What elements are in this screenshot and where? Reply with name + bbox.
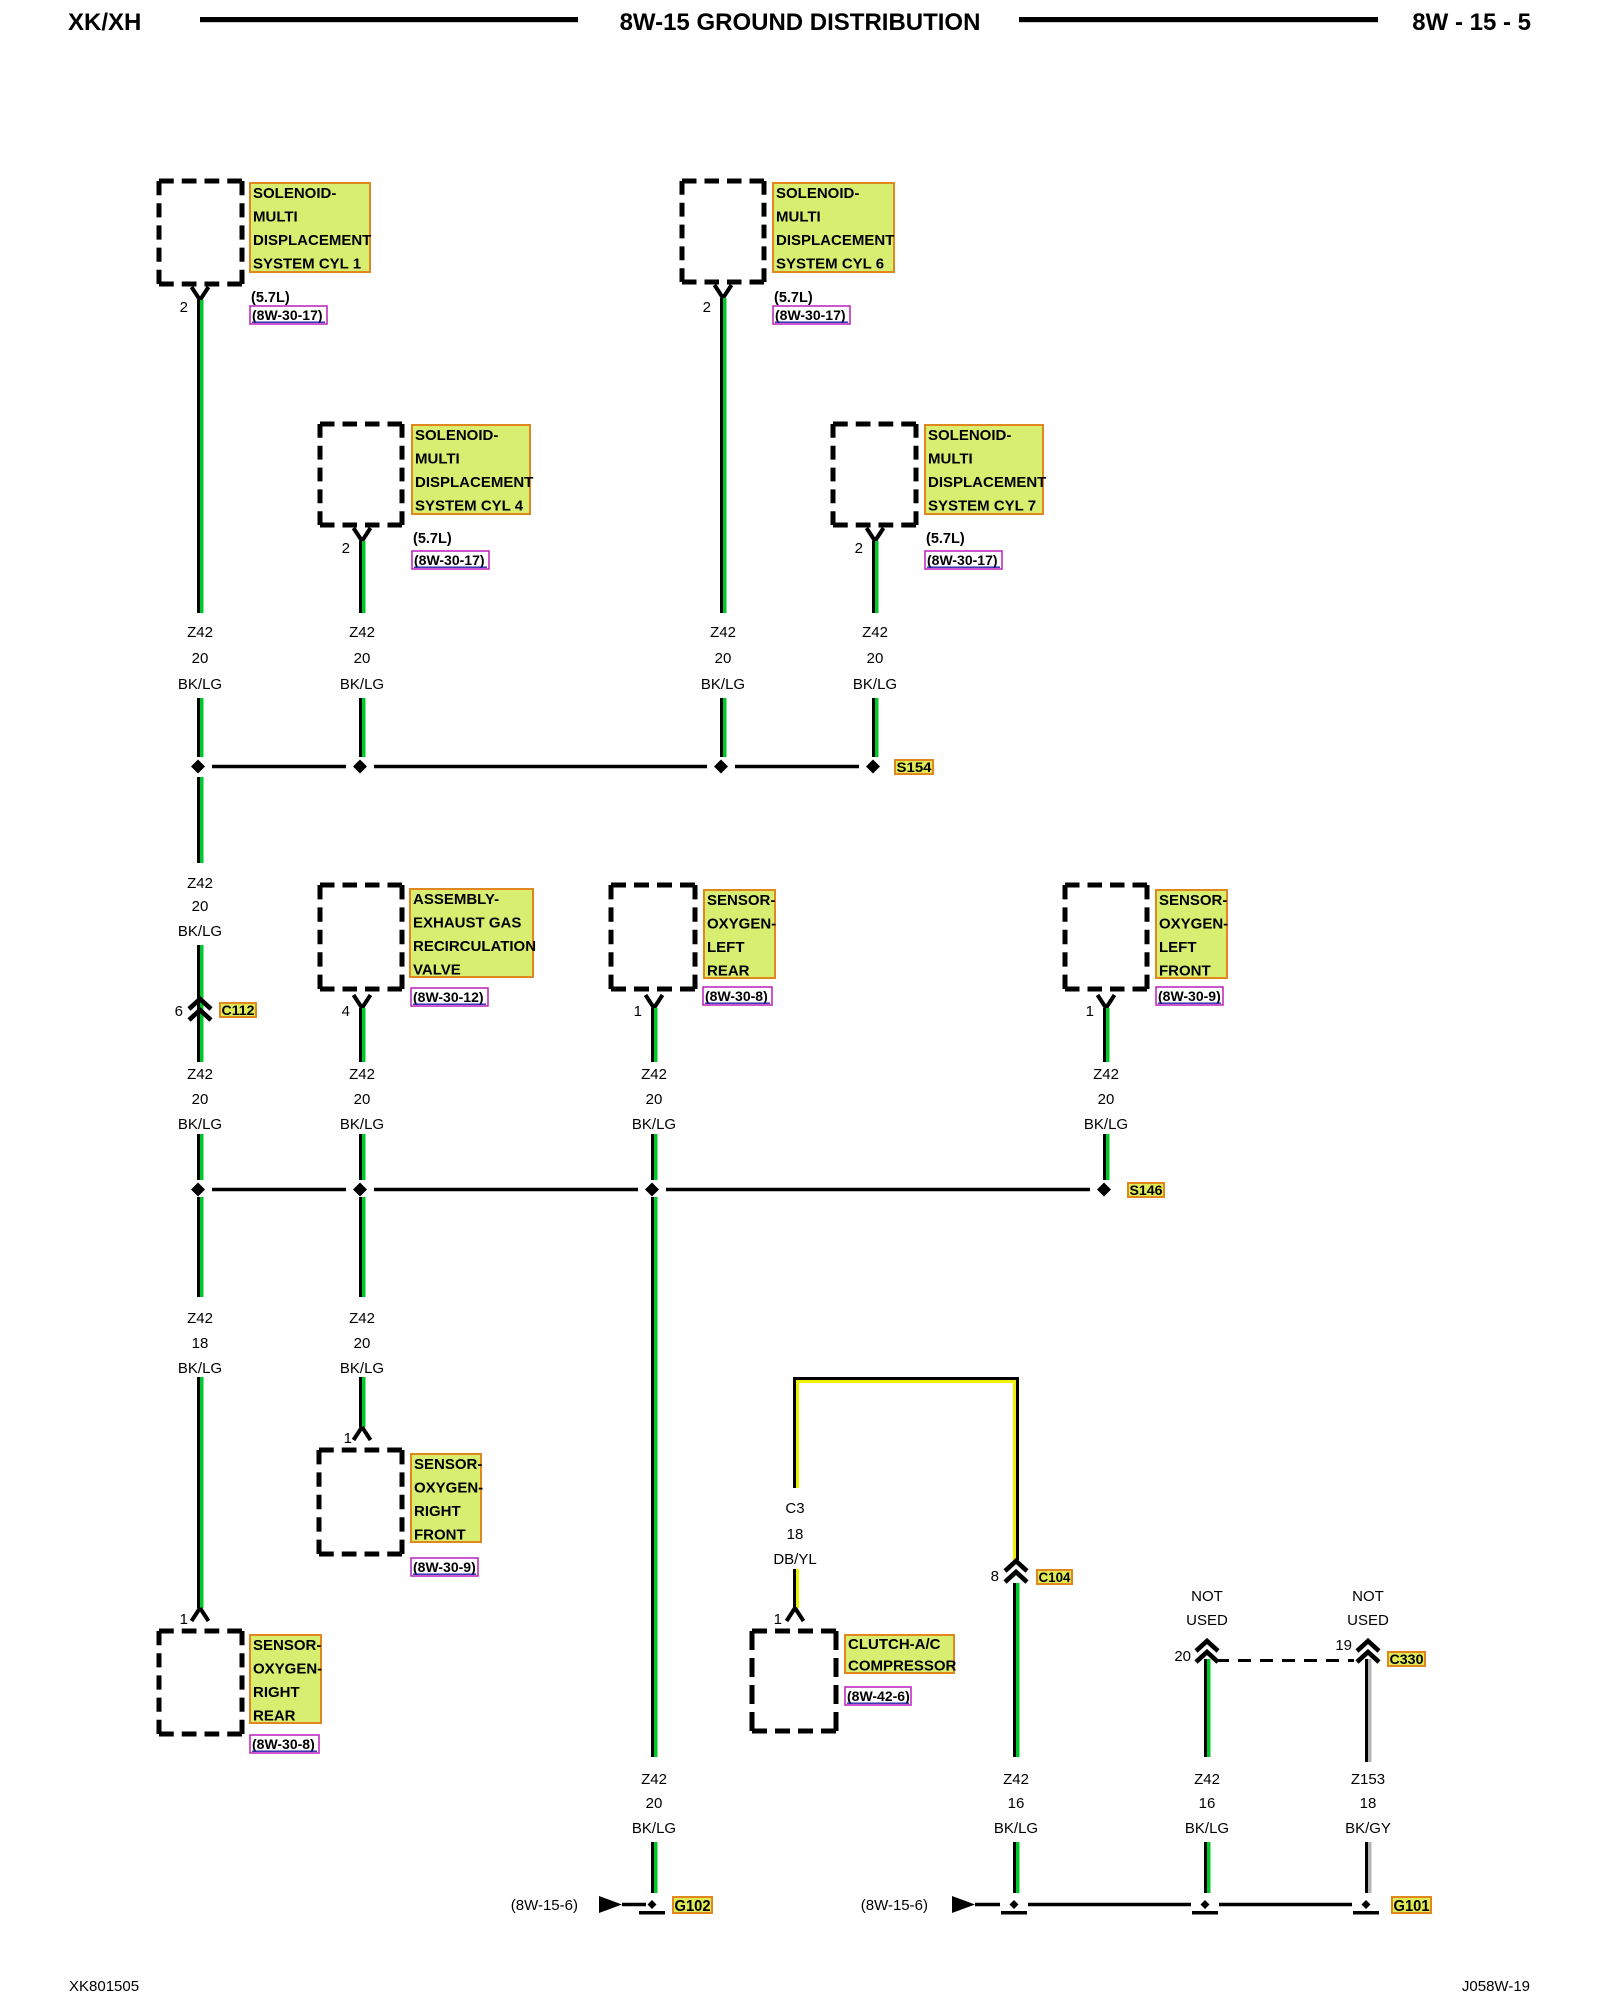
ground label G102 bbox=[673, 1897, 712, 1915]
wire Z42 20 BK/LG from cyl7 upper segment bbox=[872, 541, 879, 613]
svg-text:Z42: Z42 bbox=[641, 1066, 667, 1083]
label SENSOR-OXYGEN-LEFT REAR bbox=[704, 890, 776, 980]
svg-text:BK/LG: BK/LG bbox=[178, 923, 222, 940]
svg-text:SOLENOID-: SOLENOID- bbox=[415, 427, 498, 444]
in-line connector C112 symbol bbox=[189, 999, 211, 1020]
clutch-A/C compressor connector box bbox=[752, 1631, 836, 1731]
wire C3 18 DB/YL right vertical into C104 bbox=[1013, 1377, 1019, 1560]
svg-text:20: 20 bbox=[1174, 1648, 1191, 1665]
ground junction G101 a bbox=[1010, 1900, 1019, 1909]
reference link 8W-30-8 for right rear oxygen sensor bbox=[250, 1735, 319, 1753]
connector Y at A/C compressor clutch bbox=[787, 1608, 804, 1621]
svg-text:20: 20 bbox=[715, 650, 732, 667]
dashed tie line between C330 pins bbox=[1216, 1659, 1354, 1662]
svg-text:6: 6 bbox=[175, 1003, 183, 1020]
svg-text:20: 20 bbox=[192, 898, 209, 915]
junction at cyl6 wire on S154 bbox=[714, 760, 728, 774]
svg-text:BK/LG: BK/LG bbox=[632, 1820, 676, 1837]
svg-text:S154: S154 bbox=[897, 759, 932, 775]
svg-text:(5.7L): (5.7L) bbox=[926, 531, 965, 547]
label SENSOR-OXYGEN-LEFT FRONT bbox=[1156, 890, 1228, 980]
svg-text:(8W-30-9): (8W-30-9) bbox=[1158, 988, 1221, 1004]
connector label C112 bbox=[220, 1002, 256, 1018]
svg-text:(8W-30-8): (8W-30-8) bbox=[705, 988, 768, 1004]
svg-text:BK/GY: BK/GY bbox=[1345, 1820, 1391, 1837]
svg-text:C330: C330 bbox=[1390, 1651, 1424, 1667]
svg-text:18: 18 bbox=[192, 1335, 209, 1352]
wire Z153 18 BK/GY from C330 pin 19 bbox=[1365, 1659, 1372, 1762]
wire Z42 20 BK/LG from left rear oxygen sensor bbox=[651, 1008, 658, 1062]
svg-text:8W - 15 - 5: 8W - 15 - 5 bbox=[1412, 9, 1531, 36]
svg-text:SOLENOID-: SOLENOID- bbox=[776, 185, 859, 202]
connector Y at left rear oxygen sensor bbox=[646, 995, 663, 1008]
wire Z42 20 BK/LG left rear sensor into S146 bbox=[651, 1134, 658, 1180]
wire Z42 20 BK/LG from cyl6 lower segment to S154 bbox=[720, 698, 727, 757]
wire Z42 16 BK/LG from C330 pin 20 bbox=[1204, 1659, 1211, 1757]
svg-text:LEFT: LEFT bbox=[1159, 939, 1197, 956]
wire Z42 20 BK/LG from cyl7 lower segment to S154 bbox=[872, 698, 879, 757]
svg-text:RIGHT: RIGHT bbox=[414, 1503, 461, 1520]
svg-text:BK/LG: BK/LG bbox=[994, 1820, 1038, 1837]
splice S154 bus segment 2 bbox=[374, 765, 707, 769]
splice label S146 bbox=[1128, 1182, 1164, 1198]
ground bar G101 c bbox=[1353, 1911, 1379, 1915]
label ASSEMBLY-EXHAUST GAS RECIRCULATION VALVE bbox=[410, 889, 536, 979]
svg-text:OXYGEN-: OXYGEN- bbox=[414, 1480, 483, 1497]
label SOLENOID-MULTI DISPLACEMENT SYSTEM CYL 1 bbox=[250, 183, 371, 273]
svg-text:C3: C3 bbox=[785, 1500, 804, 1517]
ground label G101 bbox=[1392, 1897, 1431, 1915]
svg-text:BK/LG: BK/LG bbox=[701, 676, 745, 693]
svg-text:VALVE: VALVE bbox=[413, 962, 461, 979]
svg-text:(8W-30-17): (8W-30-17) bbox=[775, 307, 846, 323]
svg-text:2: 2 bbox=[180, 299, 188, 316]
junction at cyl7 wire on S154 bbox=[866, 760, 880, 774]
svg-text:SYSTEM CYL 6: SYSTEM CYL 6 bbox=[776, 256, 884, 273]
svg-text:(8W-30-12): (8W-30-12) bbox=[413, 989, 484, 1005]
reference link 8W-30-17 for cyl 1 bbox=[250, 306, 327, 324]
svg-text:BK/LG: BK/LG bbox=[340, 676, 384, 693]
reference link 8W-42-6 for A/C compressor clutch bbox=[845, 1687, 911, 1705]
reference link 8W-30-9 for left front oxygen sensor bbox=[1156, 987, 1223, 1005]
off-page triangle at G102 bbox=[599, 1896, 622, 1913]
header rule left bbox=[200, 17, 578, 22]
wire Z42 16 BK/LG into ground G101 first bbox=[1013, 1842, 1020, 1893]
sensor-oxygen-left front connector box bbox=[1065, 885, 1147, 989]
svg-text:SYSTEM CYL 1: SYSTEM CYL 1 bbox=[253, 256, 361, 273]
svg-text:BK/LG: BK/LG bbox=[178, 1360, 222, 1377]
svg-text:1: 1 bbox=[180, 1611, 188, 1628]
svg-text:BK/LG: BK/LG bbox=[178, 1116, 222, 1133]
svg-text:20: 20 bbox=[867, 650, 884, 667]
svg-text:18: 18 bbox=[787, 1526, 804, 1543]
svg-text:Z42: Z42 bbox=[349, 624, 375, 641]
ground junction G101 b bbox=[1201, 1900, 1210, 1909]
connector label C104 bbox=[1037, 1569, 1072, 1585]
svg-text:MULTI: MULTI bbox=[776, 209, 821, 226]
sensor-oxygen-right front connector box bbox=[319, 1450, 402, 1554]
svg-text:20: 20 bbox=[646, 1091, 663, 1108]
svg-text:SOLENOID-: SOLENOID- bbox=[253, 185, 336, 202]
wire Z42 20 BK/LG from cyl4 lower segment to S154 bbox=[359, 698, 366, 757]
svg-text:Z153: Z153 bbox=[1351, 1771, 1385, 1788]
svg-text:20: 20 bbox=[354, 650, 371, 667]
ground G101 bus segment 2 bbox=[1028, 1903, 1191, 1907]
off-page triangle at G101 bbox=[952, 1896, 975, 1913]
junction left front sensor wire on S146 bbox=[1097, 1183, 1111, 1197]
reference link 8W-30-12 for EGR valve bbox=[411, 988, 488, 1006]
svg-text:RECIRCULATION: RECIRCULATION bbox=[413, 938, 536, 955]
svg-text:20: 20 bbox=[1098, 1091, 1115, 1108]
connector Y at cyl 1 solenoid bbox=[192, 287, 209, 300]
solenoid-multi displacement system cyl 1 connector box bbox=[159, 181, 242, 284]
wire Z42 16 BK/LG below C104 bbox=[1013, 1583, 1020, 1757]
svg-text:G101: G101 bbox=[1394, 1898, 1430, 1915]
wire Z42 20 BK/LG from EGR into S146 bbox=[359, 1134, 366, 1180]
wire C3 18 DB/YL left vertical lower segment bbox=[793, 1569, 799, 1608]
svg-text:20: 20 bbox=[646, 1795, 663, 1812]
svg-text:1: 1 bbox=[1086, 1003, 1094, 1020]
reference link 8W-30-17 for cyl 7 bbox=[925, 551, 1002, 569]
svg-text:(8W-30-17): (8W-30-17) bbox=[927, 552, 998, 568]
solenoid-multi displacement system cyl 4 connector box bbox=[320, 424, 402, 525]
svg-text:S146: S146 bbox=[1130, 1182, 1163, 1198]
svg-text:BK/LG: BK/LG bbox=[853, 676, 897, 693]
connector Y at cyl 7 solenoid bbox=[867, 528, 884, 541]
svg-text:BK/LG: BK/LG bbox=[178, 676, 222, 693]
svg-text:Z42: Z42 bbox=[349, 1066, 375, 1083]
wire C3 18 DB/YL horizontal top segment bbox=[793, 1377, 1019, 1383]
assembly-exhaust gas recirculation valve connector box bbox=[320, 885, 402, 989]
wire Z42 20 BK/LG into C112 bbox=[197, 945, 204, 1062]
wire Z42 16 BK/LG into ground G101 second bbox=[1204, 1842, 1211, 1893]
svg-text:(8W-30-9): (8W-30-9) bbox=[413, 1559, 476, 1575]
junction EGR wire on S146 bbox=[353, 1183, 367, 1197]
svg-text:18: 18 bbox=[1360, 1795, 1377, 1812]
svg-text:OXYGEN-: OXYGEN- bbox=[253, 1661, 322, 1678]
svg-text:NOT: NOT bbox=[1191, 1588, 1223, 1605]
svg-text:8: 8 bbox=[991, 1568, 999, 1585]
svg-text:FRONT: FRONT bbox=[414, 1527, 466, 1544]
reference link 8W-30-9 for right front oxygen sensor bbox=[411, 1558, 478, 1576]
svg-text:2: 2 bbox=[855, 540, 863, 557]
svg-text:(5.7L): (5.7L) bbox=[251, 290, 290, 306]
reference link 8W-30-17 for cyl 4 bbox=[412, 551, 489, 569]
svg-text:Z42: Z42 bbox=[187, 624, 213, 641]
svg-text:20: 20 bbox=[192, 1091, 209, 1108]
svg-text:19: 19 bbox=[1335, 1637, 1352, 1654]
ground bar G101 a bbox=[1001, 1911, 1027, 1915]
wire Z42 20 BK/LG from cyl4 upper segment bbox=[359, 541, 366, 613]
svg-text:1: 1 bbox=[774, 1611, 782, 1628]
splice S146 bus segment 2 bbox=[374, 1188, 638, 1192]
svg-text:Z42: Z42 bbox=[641, 1771, 667, 1788]
reference link 8W-30-17 for cyl 6 bbox=[773, 306, 850, 324]
svg-text:Z42: Z42 bbox=[1194, 1771, 1220, 1788]
svg-text:BK/LG: BK/LG bbox=[340, 1360, 384, 1377]
sensor-oxygen-left rear connector box bbox=[611, 885, 695, 989]
ground junction G102 bbox=[648, 1900, 657, 1909]
wire Z42 20 BK/LG into ground G102 bbox=[651, 1842, 658, 1893]
ground G102 bus segment bbox=[622, 1903, 646, 1907]
splice S146 bus segment 3 bbox=[666, 1188, 1090, 1192]
svg-text:SYSTEM CYL 7: SYSTEM CYL 7 bbox=[928, 498, 1036, 515]
wire Z42 20 BK/LG from left front oxygen sensor bbox=[1103, 1008, 1110, 1062]
ground G101 bus segment 1 bbox=[975, 1903, 1000, 1907]
wire Z42 20 BK/LG from EGR upper segment bbox=[359, 1008, 366, 1062]
svg-text:C112: C112 bbox=[222, 1002, 255, 1018]
svg-text:DISPLACEMENT: DISPLACEMENT bbox=[776, 232, 894, 249]
svg-text:OXYGEN-: OXYGEN- bbox=[1159, 916, 1228, 933]
wire Z42 18 BK/LG col1 to right rear oxygen sensor bbox=[197, 1377, 204, 1608]
svg-text:G102: G102 bbox=[675, 1898, 711, 1915]
svg-text:20: 20 bbox=[192, 650, 209, 667]
in-line connector C104 symbol bbox=[1005, 1561, 1027, 1582]
connector C330 pin 20 symbol bbox=[1196, 1641, 1218, 1662]
svg-text:FRONT: FRONT bbox=[1159, 963, 1211, 980]
svg-text:Z42: Z42 bbox=[349, 1310, 375, 1327]
wire Z42 20 BK/LG below S154 segment a bbox=[197, 777, 204, 863]
svg-text:BK/LG: BK/LG bbox=[1084, 1116, 1128, 1133]
svg-text:BK/LG: BK/LG bbox=[340, 1116, 384, 1133]
svg-text:DISPLACEMENT: DISPLACEMENT bbox=[415, 474, 533, 491]
svg-text:SYSTEM CYL 4: SYSTEM CYL 4 bbox=[415, 498, 524, 515]
label CLUTCH-A/C COMPRESSOR bbox=[845, 1635, 957, 1675]
ground junction G101 c bbox=[1362, 1900, 1371, 1909]
sensor-oxygen-right rear connector box bbox=[159, 1631, 242, 1734]
wire Z42 20 BK/LG from cyl1 lower segment to S154 bbox=[197, 698, 204, 757]
svg-text:Z42: Z42 bbox=[187, 875, 213, 892]
label SOLENOID-MULTI DISPLACEMENT SYSTEM CYL 4 bbox=[412, 425, 533, 515]
svg-text:20: 20 bbox=[354, 1335, 371, 1352]
svg-text:SENSOR-: SENSOR- bbox=[707, 892, 775, 909]
svg-text:RIGHT: RIGHT bbox=[253, 1684, 300, 1701]
wire Z42 20 BK/LG from cyl6 upper segment bbox=[720, 298, 727, 613]
label SENSOR-OXYGEN-RIGHT REAR bbox=[250, 1635, 322, 1725]
solenoid-multi displacement system cyl 6 connector box bbox=[682, 181, 764, 282]
solenoid-multi displacement system cyl 7 connector box bbox=[833, 424, 916, 525]
svg-text:Z42: Z42 bbox=[1093, 1066, 1119, 1083]
svg-text:EXHAUST GAS: EXHAUST GAS bbox=[413, 915, 521, 932]
svg-text:USED: USED bbox=[1186, 1612, 1228, 1629]
reference link 8W-30-8 for left rear oxygen sensor bbox=[703, 987, 772, 1005]
wire Z42 18 BK/LG col1 below S146 upper bbox=[197, 1197, 204, 1297]
svg-text:(8W-30-17): (8W-30-17) bbox=[252, 307, 323, 323]
svg-text:2: 2 bbox=[703, 299, 711, 316]
svg-text:USED: USED bbox=[1347, 1612, 1389, 1629]
header rule right bbox=[1019, 17, 1378, 22]
svg-text:(5.7L): (5.7L) bbox=[774, 290, 813, 306]
wire Z42 20 BK/LG col2 to right front oxygen sensor bbox=[359, 1377, 366, 1427]
wire Z42 20 BK/LG left front sensor into S146 bbox=[1103, 1134, 1110, 1180]
svg-text:C104: C104 bbox=[1039, 1569, 1071, 1585]
svg-text:J058W-19: J058W-19 bbox=[1462, 1978, 1530, 1995]
splice S154 bus segment 1 bbox=[212, 765, 346, 769]
svg-text:BK/LG: BK/LG bbox=[632, 1116, 676, 1133]
svg-text:LEFT: LEFT bbox=[707, 939, 745, 956]
svg-text:BK/LG: BK/LG bbox=[1185, 1820, 1229, 1837]
connector Y at EGR valve bbox=[354, 995, 371, 1008]
svg-text:OXYGEN-: OXYGEN- bbox=[707, 916, 776, 933]
ground bar G102 bbox=[639, 1911, 665, 1915]
svg-text:8W-15 GROUND DISTRIBUTION: 8W-15 GROUND DISTRIBUTION bbox=[620, 9, 981, 36]
splice S146 bus segment 1 bbox=[212, 1188, 346, 1192]
svg-text:DISPLACEMENT: DISPLACEMENT bbox=[253, 232, 371, 249]
svg-text:1: 1 bbox=[634, 1003, 642, 1020]
svg-text:MULTI: MULTI bbox=[253, 209, 298, 226]
svg-text:DISPLACEMENT: DISPLACEMENT bbox=[928, 474, 1046, 491]
svg-text:ASSEMBLY-: ASSEMBLY- bbox=[413, 891, 499, 908]
svg-text:16: 16 bbox=[1008, 1795, 1025, 1812]
connector Y at left front oxygen sensor bbox=[1098, 995, 1115, 1008]
connector Y at cyl 4 solenoid bbox=[354, 528, 371, 541]
connector Y at cyl 6 solenoid bbox=[715, 285, 732, 298]
connector Y at right front oxygen sensor bbox=[354, 1427, 371, 1440]
svg-text:(8W-42-6): (8W-42-6) bbox=[847, 1688, 910, 1704]
svg-text:REAR: REAR bbox=[707, 963, 750, 980]
svg-text:COMPRESSOR: COMPRESSOR bbox=[848, 1658, 957, 1675]
svg-text:XK801505: XK801505 bbox=[69, 1978, 139, 1995]
wire Z42 20 BK/LG from cyl1 pin2 upper segment bbox=[197, 300, 204, 613]
wire Z42 20 BK/LG col1 into S146 upper bbox=[197, 1134, 204, 1180]
svg-text:Z42: Z42 bbox=[1003, 1771, 1029, 1788]
wire Z42 20 BK/LG left rear sensor to G102 upper bbox=[651, 1197, 658, 1757]
svg-text:MULTI: MULTI bbox=[415, 451, 460, 468]
junction col1 on S146 bbox=[191, 1183, 205, 1197]
svg-text:SENSOR-: SENSOR- bbox=[253, 1637, 321, 1654]
svg-text:Z42: Z42 bbox=[187, 1066, 213, 1083]
svg-text:Z42: Z42 bbox=[710, 624, 736, 641]
svg-text:DB/YL: DB/YL bbox=[773, 1551, 816, 1568]
svg-text:Z42: Z42 bbox=[862, 624, 888, 641]
ground G101 bus segment 3 bbox=[1219, 1903, 1352, 1907]
svg-text:XK/XH: XK/XH bbox=[68, 9, 141, 36]
connector C330 pin 19 symbol bbox=[1357, 1641, 1379, 1662]
svg-text:(8W-30-8): (8W-30-8) bbox=[252, 1736, 315, 1752]
svg-text:1: 1 bbox=[344, 1430, 352, 1447]
connector label C330 bbox=[1388, 1651, 1425, 1667]
label SOLENOID-MULTI DISPLACEMENT SYSTEM CYL 6 bbox=[773, 183, 894, 273]
junction left rear sensor wire on S146 bbox=[645, 1183, 659, 1197]
ground bar G101 b bbox=[1192, 1911, 1218, 1915]
svg-text:MULTI: MULTI bbox=[928, 451, 973, 468]
svg-text:CLUTCH-A/C: CLUTCH-A/C bbox=[848, 1636, 941, 1653]
label SENSOR-OXYGEN-RIGHT FRONT bbox=[411, 1454, 483, 1544]
svg-text:SENSOR-: SENSOR- bbox=[1159, 892, 1227, 909]
svg-text:2: 2 bbox=[342, 540, 350, 557]
svg-text:(8W-15-6): (8W-15-6) bbox=[861, 1897, 928, 1914]
svg-text:SOLENOID-: SOLENOID- bbox=[928, 427, 1011, 444]
svg-text:Z42: Z42 bbox=[187, 1310, 213, 1327]
junction at cyl4 wire on S154 bbox=[353, 760, 367, 774]
connector Y at right rear oxygen sensor bbox=[192, 1608, 209, 1621]
wire Z42 20 BK/LG col2 below S146 upper bbox=[359, 1197, 366, 1297]
label SOLENOID-MULTI DISPLACEMENT SYSTEM CYL 7 bbox=[925, 425, 1046, 515]
junction at cyl1 wire on S154 bbox=[191, 760, 205, 774]
svg-text:20: 20 bbox=[354, 1091, 371, 1108]
svg-text:16: 16 bbox=[1199, 1795, 1216, 1812]
svg-text:(5.7L): (5.7L) bbox=[413, 531, 452, 547]
svg-text:NOT: NOT bbox=[1352, 1588, 1384, 1605]
svg-text:SENSOR-: SENSOR- bbox=[414, 1456, 482, 1473]
wire Z153 18 BK/GY into ground G101 third bbox=[1365, 1842, 1372, 1893]
splice S154 bus segment 3 bbox=[735, 765, 859, 769]
svg-text:4: 4 bbox=[342, 1003, 350, 1020]
svg-text:(8W-30-17): (8W-30-17) bbox=[414, 552, 485, 568]
splice label S154 bbox=[895, 759, 933, 775]
svg-text:(8W-15-6): (8W-15-6) bbox=[511, 1897, 578, 1914]
svg-text:REAR: REAR bbox=[253, 1708, 296, 1725]
wire C3 18 DB/YL left vertical upper segment bbox=[793, 1377, 799, 1488]
